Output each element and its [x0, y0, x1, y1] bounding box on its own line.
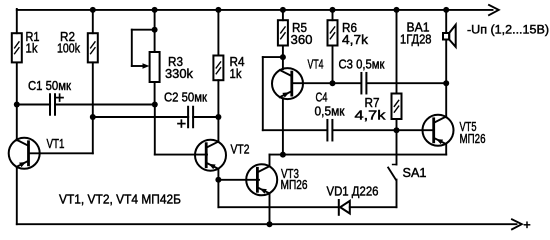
wire VT1 base horizontal	[29, 152, 93, 154]
speaker BA1 1GD28	[443, 25, 456, 47]
node R6/VT4-base junction	[330, 80, 336, 86]
svg-text:VD1 Д226: VD1 Д226	[327, 183, 379, 198]
wire VT5 collector lead	[445, 83, 447, 117]
wire VT1 base riser	[92, 117, 94, 153]
node VT3 emitter bottom rail junction	[267, 221, 273, 227]
label C1 polarity +	[56, 94, 63, 101]
wire R2 bottom lead	[92, 62, 94, 117]
wire VT4 collector lead	[282, 57, 284, 69]
wire R5 bottom lead	[282, 46, 284, 58]
wire emitter line VT3-VT4-VT5	[270, 154, 447, 156]
resistor R3	[150, 52, 194, 82]
svg-text:100k: 100k	[57, 40, 80, 55]
node R1/C1/VT1 junction	[14, 102, 20, 108]
svg-text:C1 50мк: C1 50мк	[28, 78, 71, 93]
node R2/C2/VT1-base junction	[90, 114, 96, 120]
wire SA1 bottom terminal	[396, 180, 398, 208]
node BA1 top rail junction	[443, 7, 449, 13]
node bottom supply arrow	[512, 219, 522, 229]
wire VD1 line right	[350, 206, 397, 208]
wire top supply rail	[17, 9, 493, 11]
node R6 top rail junction	[330, 7, 336, 13]
wire VT3 base horizontal	[218, 179, 259, 181]
svg-text:VT1: VT1	[47, 136, 65, 151]
wire left rail top (R1 to supply)	[16, 9, 18, 33]
wire C1 left lead	[17, 104, 50, 106]
wire VT2 emitter lead	[217, 169, 219, 180]
wire C4 line right (VT5 base)	[333, 129, 434, 131]
wire R6 bottom lead	[332, 46, 334, 84]
wire C3 to BA1 node	[367, 82, 446, 84]
wire VT1 emitter to bottom rail	[16, 167, 18, 224]
wire R3 wiper bracket side	[131, 30, 133, 66]
svg-text:0,5мк: 0,5мк	[315, 104, 345, 119]
wire R3 top lead	[154, 10, 156, 52]
wire VT2 base horizontal	[155, 154, 207, 156]
wire bottom supply rail	[17, 223, 517, 225]
wire R7 bottom lead	[396, 119, 398, 130]
wire R4 bottom lead	[217, 80, 219, 117]
svg-text:VT4: VT4	[308, 56, 324, 71]
node C2/R4/VT2-collector junction	[215, 114, 221, 120]
capacitor C4	[327, 120, 332, 141]
node VT2-emitter/VT3-base junction	[215, 177, 221, 183]
resistor R6	[328, 20, 369, 47]
wire R5-C4 bracket horizontal	[263, 56, 283, 58]
wire C1 right lead	[55, 104, 155, 106]
wire R3 wiper arrow	[132, 65, 146, 67]
wire BA1 bottom lead	[445, 40, 447, 84]
svg-text:-Uп (1,2...15В): -Uп (1,2...15В)	[467, 22, 549, 36]
wire VT4 emitter lead	[282, 98, 284, 154]
wire C2 line right	[193, 116, 218, 118]
wire R4 top lead	[217, 10, 219, 56]
transistor VT4 MP42B	[272, 68, 303, 99]
wire VD1 line left	[218, 206, 338, 208]
svg-text:360: 360	[291, 32, 313, 47]
svg-text:1k: 1k	[230, 66, 242, 81]
wire VT3 collector lead	[269, 155, 271, 167]
wire SA1 top terminal	[396, 130, 398, 164]
wire VT5 emitter riser	[445, 144, 447, 155]
svg-text:1k: 1k	[26, 40, 38, 55]
svg-text:4,7k: 4,7k	[342, 32, 369, 47]
svg-text:VT1, VT2, VT4 МП42Б: VT1, VT2, VT4 МП42Б	[59, 191, 181, 206]
wire R3 bottom lead	[154, 82, 156, 105]
wire C4 line left	[263, 129, 327, 131]
resistor R2	[57, 29, 98, 62]
node R2 top rail junction	[90, 7, 96, 13]
node -Un supply arrow	[489, 5, 499, 15]
node C3/BA1/VT5-collector junction	[443, 80, 449, 86]
transistor VT1 MP42B	[9, 138, 40, 169]
wire R3 wiper bracket top	[132, 29, 155, 31]
resistor R1	[12, 29, 40, 62]
diode VD1 D226	[339, 200, 350, 215]
node R3 wiper tap junction	[152, 27, 158, 33]
wire SA1 contact tick	[393, 164, 397, 166]
node R4 top rail junction	[215, 7, 221, 13]
resistor R4	[213, 54, 244, 81]
transistor VT5 MP26	[423, 115, 454, 146]
capacitor C1	[50, 94, 55, 115]
capacitor C3	[361, 73, 366, 94]
node R7/C4/SA1 junction	[394, 127, 400, 133]
wire SA1 arm	[388, 168, 396, 180]
svg-text:C2 50мк: C2 50мк	[164, 89, 207, 104]
wire R6 top lead	[332, 10, 334, 20]
node R5 top rail junction	[280, 7, 286, 13]
node C1/R3/VT2-base junction	[152, 102, 158, 108]
label C2 polarity +	[178, 120, 185, 127]
svg-text:МП26: МП26	[281, 177, 308, 192]
svg-text:4,7k: 4,7k	[355, 108, 387, 123]
resistor R7	[355, 94, 402, 123]
wire VT2 base riser	[154, 105, 156, 155]
wire VT3 emitter to bottom rail	[269, 193, 271, 224]
svg-text:C3 0,5мк: C3 0,5мк	[339, 57, 385, 72]
wire VT2 collector lead	[217, 117, 219, 142]
svg-text:МП26: МП26	[460, 131, 486, 146]
wire VT4 base to C3	[292, 82, 361, 84]
wire R7 top lead	[396, 10, 398, 94]
svg-text:SA1: SA1	[403, 165, 427, 180]
node R3 top rail junction	[152, 7, 158, 13]
svg-text:330k: 330k	[165, 66, 193, 81]
wire C2 line left	[93, 116, 188, 118]
node R5/VT4-collector junction	[280, 54, 286, 60]
svg-text:VT2: VT2	[231, 142, 250, 157]
transistor VT3 MP26	[246, 164, 277, 195]
wire VD1 branch down	[217, 180, 219, 207]
wire BA1 top lead	[445, 10, 447, 33]
node R7 top rail junction	[394, 7, 400, 13]
wire R1 bottom to VT1 collector	[16, 62, 18, 140]
svg-text:C4: C4	[316, 89, 328, 104]
transistor VT2 MP42B	[195, 140, 226, 171]
svg-text:1ГД28: 1ГД28	[400, 31, 432, 46]
capacitor C2	[188, 107, 193, 128]
wire R2 top lead	[92, 10, 94, 33]
wire R5 top lead	[282, 10, 284, 20]
node VT4-emitter/emitter-line junction	[280, 152, 286, 158]
resistor R5	[278, 20, 313, 47]
wire R5-C4 bracket vertical	[262, 57, 264, 130]
